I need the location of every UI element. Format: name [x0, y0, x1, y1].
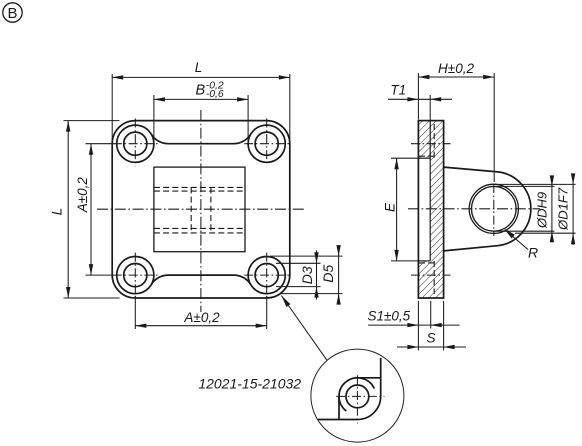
- front view main centerlines: [97, 110, 304, 312]
- svg-text:H±0,2: H±0,2: [438, 61, 474, 76]
- detail leader line: [281, 296, 327, 361]
- recess step top: [418, 157, 430, 159]
- dimension A bottom: [135, 296, 266, 329]
- svg-text:L: L: [195, 60, 203, 75]
- detail corner edge vertical: [380, 358, 382, 396]
- radius R leader: [504, 229, 538, 261]
- dimension ØD1F7: [494, 173, 576, 245]
- hole circle bottom-left: [124, 264, 147, 287]
- hatching top band: [418, 121, 443, 159]
- hatching bottom band: [418, 261, 443, 298]
- svg-text:ØDH9: ØDH9: [535, 192, 550, 229]
- side view hole centerlines: [411, 144, 451, 275]
- pivot vertical centerline: [493, 184, 495, 236]
- center square boss: [154, 167, 245, 252]
- recess edge line: [429, 121, 431, 261]
- pivot hole inner circle: [472, 187, 517, 232]
- pivot hole outer circle: [469, 184, 518, 233]
- svg-text:R: R: [528, 245, 538, 261]
- detail circle: [311, 349, 404, 442]
- dimension S: [397, 301, 466, 351]
- dimension S1: [368, 301, 460, 351]
- dimension A left: [75, 144, 112, 275]
- svg-text:S: S: [426, 330, 435, 345]
- dimension D5: [270, 245, 343, 305]
- detail centerlines: [336, 375, 384, 423]
- svg-text:-0,6: -0,6: [206, 89, 224, 100]
- front view plate outline: [112, 121, 290, 298]
- counterbore circle bottom-right: [248, 257, 285, 294]
- hidden lines side view: [419, 124, 434, 294]
- centerline cross top-right hole: [244, 119, 289, 167]
- svg-text:12021-15-21032: 12021-15-21032: [198, 375, 301, 391]
- centerline cross top-left hole: [113, 119, 158, 167]
- detail counterbore arc: [339, 378, 374, 411]
- hidden lines center feature: [154, 187, 245, 233]
- counterbore circle bottom-left: [117, 257, 154, 294]
- centerline cross bottom-left hole: [113, 253, 158, 301]
- view label B circle: [3, 3, 22, 22]
- svg-text:D3: D3: [299, 266, 315, 284]
- detail corner edge horizontal: [318, 419, 358, 421]
- svg-text:E: E: [383, 202, 398, 212]
- svg-text:B: B: [7, 5, 17, 22]
- bottom pocket contour: [151, 275, 251, 285]
- svg-text:A±0,2: A±0,2: [183, 310, 220, 325]
- lug outline: [444, 167, 531, 251]
- dimension E: [383, 158, 420, 261]
- top pocket contour: [151, 134, 251, 144]
- svg-text:A±0,2: A±0,2: [75, 177, 90, 214]
- side view main centerline: [408, 208, 540, 210]
- counterbore circle top-right: [248, 125, 285, 162]
- dimension D3: [276, 251, 321, 300]
- dimension ØDH9: [494, 175, 555, 242]
- side view plate outline: [418, 121, 443, 298]
- hole circle top-left: [124, 132, 147, 155]
- detail corner arc: [358, 396, 381, 419]
- dimension L left: [50, 121, 120, 298]
- dimension H top: [418, 61, 494, 182]
- hole circle bottom-right: [255, 264, 278, 287]
- svg-text:D5: D5: [320, 265, 336, 283]
- detail pocket line left: [338, 396, 340, 419]
- centerline cross bottom-right hole: [244, 253, 289, 301]
- dimension T1: [388, 82, 452, 120]
- detail hole circle: [346, 385, 369, 408]
- hatching middle band: [430, 158, 443, 261]
- dimension B with tolerance: [154, 80, 248, 143]
- detail pocket line top: [358, 377, 381, 379]
- svg-text:S1±0,5: S1±0,5: [368, 308, 411, 323]
- svg-text:T1: T1: [390, 82, 406, 97]
- counterbore circle top-left: [117, 125, 154, 162]
- svg-text:B: B: [196, 83, 206, 99]
- recess step bottom: [418, 260, 430, 262]
- hole circle top-right: [255, 132, 278, 155]
- dimension L top: [112, 60, 290, 141]
- svg-text:ØD1F7: ØD1F7: [556, 187, 571, 231]
- svg-text:L: L: [50, 208, 65, 216]
